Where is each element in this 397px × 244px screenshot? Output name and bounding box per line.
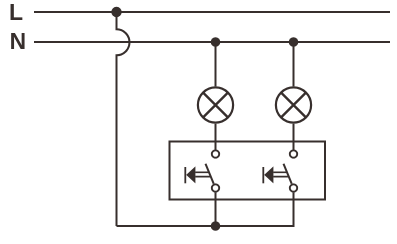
wire N to lamp E2 (293, 42, 295, 86)
wire bottom return (117, 193, 294, 226)
svg-text:N: N (10, 28, 26, 54)
lamp E2 (276, 87, 311, 122)
pin terminal bottom S1 (212, 184, 219, 191)
switch S2 (263, 150, 297, 191)
indicator lamp arrow S1 (184, 167, 186, 183)
wire L supply line (34, 11, 390, 13)
wire switch S1 to bottom return (215, 193, 217, 226)
indicator lamp arrow S2 (262, 167, 264, 183)
pin terminal top S1 (212, 150, 219, 157)
svg-text:L: L (9, 0, 23, 25)
pin terminal top S2 (290, 150, 297, 157)
switch unit enclosure box (170, 142, 326, 200)
node junction dot N lamp 1 (211, 37, 221, 47)
node junction dot N lamp 2 (289, 37, 299, 47)
net label N (10, 28, 26, 54)
switch lever S2 (284, 164, 292, 184)
wire L drop with hop over N (117, 12, 130, 226)
pin terminal bottom S2 (290, 184, 297, 191)
node junction dot on L (111, 7, 121, 17)
wire lamp E2 to switch S2 (293, 124, 295, 150)
wire lamp E1 to switch S1 (215, 124, 217, 150)
switch S1 (185, 150, 219, 191)
lamp E1 (198, 87, 233, 122)
wire N supply line (34, 41, 390, 43)
wire N to lamp E1 (215, 42, 217, 86)
switch lever S1 (206, 164, 214, 184)
net label L (9, 0, 23, 25)
node junction dot bottom (211, 221, 221, 231)
